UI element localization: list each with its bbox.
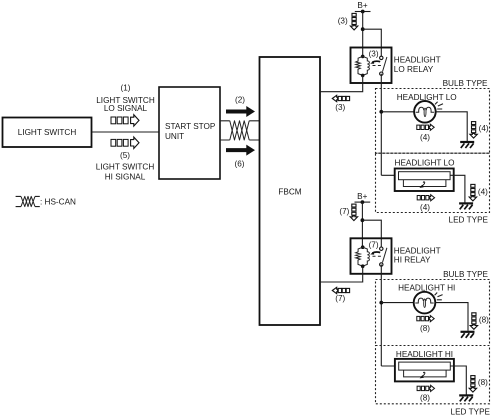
wire branch to LO relay switch bbox=[363, 29, 382, 56]
connector LO LED (4) bbox=[417, 195, 434, 201]
node branch to HI switch contact bbox=[361, 218, 365, 222]
svg-text:(7): (7) bbox=[335, 294, 345, 303]
svg-text:LED TYPE: LED TYPE bbox=[449, 216, 489, 225]
svg-text:HI SIGNAL: HI SIGNAL bbox=[105, 173, 146, 182]
wire LO bulb to ground bbox=[436, 112, 468, 141]
svg-text:(3): (3) bbox=[369, 50, 379, 59]
twisted pair HS-CAN between START STOP UNIT and FBCM bbox=[220, 121, 260, 140]
wire HI relay switch down bbox=[380, 265, 382, 367]
node HI bulb branch bbox=[379, 301, 383, 305]
dashed box LO led type bbox=[376, 153, 490, 212]
svg-text:HEADLIGHT HI: HEADLIGHT HI bbox=[396, 350, 453, 359]
wire HI LED module to ground bbox=[451, 366, 467, 395]
connector LO bulb (4) bbox=[417, 124, 434, 130]
svg-text:LIGHT SWITCH: LIGHT SWITCH bbox=[96, 163, 155, 172]
svg-text:(5): (5) bbox=[120, 151, 130, 160]
connector HI signal (squares + open arrow) bbox=[111, 137, 139, 148]
svg-text:BULB TYPE: BULB TYPE bbox=[443, 270, 488, 279]
ground LO bulb bbox=[460, 142, 474, 148]
wire to HI bulb bbox=[381, 302, 414, 304]
svg-text:LO RELAY: LO RELAY bbox=[394, 65, 434, 74]
wire into LO LED module bbox=[381, 174, 398, 176]
relay LO switch bbox=[369, 50, 387, 76]
bulb HEADLIGHT HI bbox=[414, 292, 443, 314]
svg-text:LIGHT SWITCH: LIGHT SWITCH bbox=[18, 128, 77, 137]
dashed box LO bulb type bbox=[376, 89, 490, 154]
connector LO LED ground (vertical) bbox=[469, 184, 476, 201]
relay HI coil bbox=[356, 245, 370, 268]
relay LO coil bbox=[356, 55, 370, 78]
svg-text:(4): (4) bbox=[478, 188, 488, 197]
relay box HEADLIGHT LO RELAY bbox=[351, 48, 392, 84]
connector B+ HI (vertical) bbox=[350, 204, 357, 221]
connector HI bulb ground (vertical) bbox=[470, 313, 477, 330]
svg-text:HEADLIGHT: HEADLIGHT bbox=[394, 56, 441, 65]
svg-text:(2): (2) bbox=[235, 96, 245, 105]
relay box HEADLIGHT HI RELAY bbox=[351, 238, 392, 273]
svg-text:HEADLIGHT HI: HEADLIGHT HI bbox=[398, 283, 455, 292]
ground HI LED bbox=[459, 395, 473, 401]
svg-text:(8): (8) bbox=[478, 378, 488, 387]
B+ tick line bbox=[355, 11, 371, 13]
node branch to switch contact bbox=[361, 27, 365, 31]
B+ tick line HI bbox=[355, 201, 371, 203]
wire B+ down to HI relay coil bbox=[361, 202, 363, 247]
dashed box HI bulb type bbox=[376, 280, 490, 346]
svg-text:START STOP: START STOP bbox=[165, 122, 216, 131]
wire LO LED module to ground bbox=[451, 175, 465, 202]
svg-text:(6): (6) bbox=[234, 159, 244, 168]
svg-text:LED TYPE: LED TYPE bbox=[451, 408, 491, 417]
svg-text:(3): (3) bbox=[335, 103, 345, 112]
svg-text:B+: B+ bbox=[357, 192, 367, 201]
arrow solid (2) bbox=[226, 106, 255, 117]
connector B+ LO (vertical) bbox=[350, 13, 357, 30]
svg-text:(4): (4) bbox=[420, 133, 430, 142]
wire to LO bulb bbox=[381, 111, 414, 113]
connector HI LED (8) bbox=[417, 385, 434, 391]
dashed box HI led type bbox=[376, 346, 490, 404]
svg-text:B+: B+ bbox=[357, 1, 367, 10]
svg-text:: HS-CAN: : HS-CAN bbox=[40, 198, 76, 207]
legend HS-CAN symbol bbox=[16, 196, 40, 206]
svg-text:HI RELAY: HI RELAY bbox=[394, 256, 431, 265]
wire HI relay coil to FBCM bbox=[320, 266, 363, 282]
svg-text:(8): (8) bbox=[420, 393, 430, 402]
wire LIGHT SWITCH to START STOP UNIT bbox=[92, 131, 159, 133]
svg-text:(3): (3) bbox=[338, 17, 348, 26]
svg-text:(4): (4) bbox=[479, 124, 489, 133]
svg-text:(1): (1) bbox=[120, 84, 130, 93]
bulb HEADLIGHT LO bbox=[414, 101, 443, 123]
node B+ top junction bbox=[361, 10, 365, 14]
connector FBCM-HI (left arrow + squares) bbox=[332, 287, 349, 293]
ground LO LED bbox=[459, 203, 473, 209]
svg-text:HEADLIGHT: HEADLIGHT bbox=[394, 247, 441, 256]
svg-text:LO SIGNAL: LO SIGNAL bbox=[104, 104, 148, 113]
connector HI bulb (8) bbox=[417, 316, 434, 322]
svg-text:(7): (7) bbox=[369, 240, 379, 249]
wire HI bulb to ground bbox=[435, 303, 468, 331]
wire LO relay coil to FBCM bbox=[320, 75, 363, 91]
wire into HI LED module bbox=[381, 365, 398, 367]
box LIGHT SWITCH bbox=[3, 118, 92, 148]
connector FBCM-LO (left arrow + squares) bbox=[332, 95, 349, 101]
LED module HEADLIGHT LO bbox=[395, 169, 454, 192]
node LO bulb branch bbox=[379, 110, 383, 114]
svg-text:(4): (4) bbox=[420, 203, 430, 212]
box START STOP UNIT bbox=[159, 87, 220, 179]
wire branch to HI relay switch bbox=[362, 220, 381, 247]
arrow solid (6) bbox=[226, 145, 255, 156]
connector LO signal (squares + open arrow) bbox=[111, 115, 139, 126]
svg-text:UNIT: UNIT bbox=[165, 132, 184, 141]
connector HI LED ground (vertical) bbox=[469, 376, 476, 393]
box FBCM bbox=[260, 57, 321, 325]
svg-text:BULB TYPE: BULB TYPE bbox=[443, 79, 488, 88]
relay HI switch bbox=[369, 240, 387, 266]
svg-text:(7): (7) bbox=[339, 207, 349, 216]
svg-text:(8): (8) bbox=[420, 324, 430, 333]
wire B+ down to LO relay coil bbox=[362, 12, 364, 57]
LED module HEADLIGHT HI bbox=[395, 359, 454, 382]
wire LO relay switch down bbox=[380, 74, 382, 176]
svg-text:HEADLIGHT LO: HEADLIGHT LO bbox=[395, 158, 455, 167]
node B+ HI junction bbox=[361, 200, 365, 204]
connector LO bulb ground (vertical) bbox=[470, 122, 477, 139]
svg-text:FBCM: FBCM bbox=[278, 187, 301, 196]
svg-text:(8): (8) bbox=[479, 316, 489, 325]
ground HI bulb bbox=[461, 332, 475, 338]
